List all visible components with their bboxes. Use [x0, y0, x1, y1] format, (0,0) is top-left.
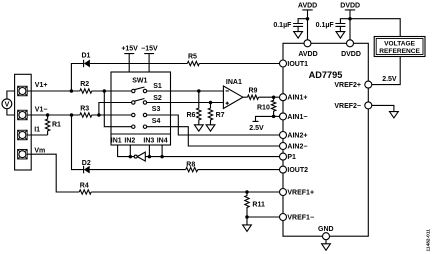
wire DVDD to voltage reference: [350, 19, 400, 37]
svg-text:VREF2+: VREF2+: [334, 82, 361, 89]
svg-text:R10: R10: [257, 104, 270, 111]
svg-text:IN1: IN1: [111, 137, 122, 144]
svg-text:AVDD: AVDD: [298, 51, 317, 58]
svg-text:2.5V: 2.5V: [382, 76, 397, 83]
svg-text:DVDD: DVDD: [340, 2, 360, 9]
resistor R10: [257, 97, 276, 116]
switch S1: [132, 83, 162, 93]
capacitor C2 0.1uF: [316, 19, 350, 32]
supply rail DVDD: [340, 2, 360, 40]
svg-text:R8: R8: [186, 161, 195, 168]
pin IOUT2: [280, 166, 309, 174]
supply rail +15V: [121, 46, 138, 72]
svg-text:D1: D1: [82, 53, 91, 60]
svg-text:SW1: SW1: [132, 77, 147, 84]
svg-text:V: V: [5, 101, 10, 108]
supply rail -15V: [141, 46, 158, 72]
pin AIN2+: [280, 132, 308, 140]
pin VREF2-: [334, 102, 371, 110]
svg-text:AIN1+: AIN1+: [287, 95, 307, 102]
wire VREF2- to ground: [372, 105, 394, 111]
node junction R6 tap: [197, 89, 201, 93]
wire I1 row: [27, 134, 47, 136]
pin AVDD: [298, 40, 317, 58]
svg-text:P1: P1: [287, 154, 296, 161]
svg-text:IN2: IN2: [124, 137, 135, 144]
pin VREF2+: [334, 81, 371, 89]
ground below C2: [336, 32, 345, 38]
inverter U2: [134, 152, 145, 161]
ground below R6: [194, 125, 203, 131]
svg-text:VREF1−: VREF1−: [287, 215, 314, 222]
node junction R10 bottom: [272, 115, 276, 119]
pin VREF1-: [280, 214, 315, 222]
resistor R7: [208, 103, 224, 125]
wire S3 row to AIN2+: [147, 115, 280, 135]
wire S1-S4 link vertical: [104, 91, 131, 127]
svg-text:IOUT1: IOUT1: [287, 61, 308, 68]
svg-text:AVDD: AVDD: [298, 2, 317, 9]
diode D1: [82, 53, 91, 68]
svg-text:R3: R3: [80, 106, 89, 113]
voltage reference U3: [374, 37, 425, 57]
svg-text:REFERENCE: REFERENCE: [379, 48, 420, 55]
pin P1: [280, 153, 297, 161]
node junction R11 bottom: [245, 215, 249, 219]
wire S4 row to AIN2-: [147, 127, 280, 146]
ground below GND pin: [322, 240, 331, 251]
switch S3: [132, 106, 161, 117]
wire IOUT1 top line: [71, 64, 279, 92]
pin AIN1-: [280, 113, 308, 121]
pin AIN2-: [280, 143, 308, 151]
svg-text:V1+: V1+: [35, 82, 48, 89]
svg-text:AIN2−: AIN2−: [287, 144, 307, 151]
resistor R9: [248, 88, 259, 100]
capacitor C1 0.1uF: [273, 19, 307, 32]
svg-text:AIN1−: AIN1−: [287, 114, 307, 121]
terminal block J1: [15, 74, 32, 170]
svg-text:−15V: −15V: [141, 46, 158, 53]
svg-text:AIN2+: AIN2+: [287, 133, 307, 140]
svg-text:I1: I1: [34, 127, 40, 134]
svg-text:11482-011: 11482-011: [425, 229, 431, 252]
wire V1- row: [27, 114, 131, 116]
pin DVDD: [341, 40, 361, 58]
diode D2: [82, 160, 91, 174]
pin IOUT1: [280, 60, 309, 68]
svg-text:IN3: IN3: [143, 137, 154, 144]
svg-text:R4: R4: [80, 183, 89, 190]
svg-text:S3: S3: [152, 106, 161, 113]
ground at VREF2-: [390, 112, 399, 118]
svg-text:R5: R5: [188, 54, 197, 61]
wire 2.5V reference output: [372, 57, 401, 85]
svg-text:V1−: V1−: [35, 106, 48, 113]
voltage source V: [2, 91, 18, 115]
resistor R11: [245, 192, 265, 217]
node junction S2/S3 feed: [97, 113, 101, 117]
pin VREF1+: [280, 189, 315, 197]
wire V1+ row: [27, 90, 131, 92]
ground below R7: [206, 125, 215, 131]
svg-text:R6: R6: [187, 112, 196, 119]
wire IOUT2 / D2 line: [72, 115, 280, 170]
svg-text:S1: S1: [153, 83, 162, 90]
wire AIN1- to pin: [274, 115, 280, 117]
svg-text:GND: GND: [318, 226, 334, 233]
svg-text:0.1µF: 0.1µF: [273, 22, 292, 29]
wire S2 link vertical: [99, 103, 132, 116]
wire VREF1- row: [247, 216, 280, 218]
node junction R10 top: [272, 95, 276, 99]
svg-text:R9: R9: [249, 88, 258, 95]
svg-text:S2: S2: [153, 95, 162, 102]
resistor R1: [45, 115, 61, 135]
svg-text:R1: R1: [52, 121, 61, 128]
svg-text:2.5V: 2.5V: [249, 125, 264, 132]
svg-text:Vm: Vm: [34, 148, 45, 155]
svg-text:R2: R2: [80, 81, 89, 88]
switch box SW1: [111, 72, 171, 145]
node junction V1+/D1: [70, 89, 74, 93]
node junction IN4: [160, 155, 164, 159]
svg-text:VREF1+: VREF1+: [287, 190, 314, 197]
wire Vm row to R4: [27, 154, 279, 192]
svg-text:+15V: +15V: [121, 46, 138, 53]
resistor R4: [79, 183, 91, 195]
node junction R11 top: [245, 190, 249, 194]
wire S2 row to INA1: [147, 102, 224, 104]
node junction IN2: [129, 155, 133, 159]
supply rail AVDD: [298, 2, 317, 40]
op-amp INA1: [223, 79, 243, 108]
wire INA1 output: [243, 96, 280, 98]
pin AIN1+: [280, 94, 308, 102]
wire S1 row to INA1: [147, 90, 224, 92]
resistor R5: [187, 54, 199, 66]
node junction R7 tap: [209, 101, 213, 105]
switch S4: [132, 118, 161, 128]
svg-text:IN4: IN4: [157, 137, 168, 144]
node junction DVDD cap: [348, 17, 352, 21]
pin GND: [318, 226, 334, 240]
resistor R2: [80, 81, 92, 93]
supply rail 2.5V at AIN1-: [249, 116, 273, 131]
ground below C1: [294, 32, 303, 38]
node junction IN3: [148, 155, 152, 159]
svg-text:VOLTAGE: VOLTAGE: [384, 41, 415, 48]
resistor R3: [80, 106, 92, 118]
resistor R8: [186, 161, 198, 172]
svg-text:R7: R7: [216, 112, 225, 119]
svg-text:AD7795: AD7795: [309, 70, 343, 80]
wire P1 line with IN pins: [118, 145, 280, 157]
IC AD7795: [283, 43, 368, 236]
svg-text:R11: R11: [252, 202, 265, 209]
node junction D2 tap: [70, 113, 74, 117]
node junction R1 tap: [46, 113, 50, 117]
switch S2: [132, 95, 162, 104]
node junction AVDD cap: [306, 17, 310, 21]
pin labels IN1 IN2 IN3 IN4: [111, 137, 168, 144]
svg-text:DVDD: DVDD: [341, 51, 361, 58]
svg-text:VREF2−: VREF2−: [334, 103, 361, 110]
node junction S1/S4 feed: [103, 89, 107, 93]
svg-text:0.1µF: 0.1µF: [316, 22, 335, 29]
svg-text:D2: D2: [82, 160, 91, 167]
svg-text:S4: S4: [152, 118, 161, 125]
ground below R11: [243, 217, 252, 231]
resistor R6: [187, 91, 202, 125]
svg-text:INA1: INA1: [226, 79, 242, 86]
svg-text:IOUT2: IOUT2: [287, 167, 308, 174]
